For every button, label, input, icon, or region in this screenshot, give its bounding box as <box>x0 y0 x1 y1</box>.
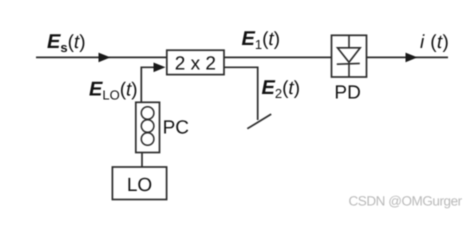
wire: ELO vertical + horizontal into coupler <box>141 67 160 102</box>
PC circle 1 <box>141 107 154 120</box>
arrow on output <box>406 53 418 63</box>
svg-text:i (t): i (t) <box>420 32 449 53</box>
polarization controller PC box <box>136 102 160 152</box>
svg-text:CSDN @OMGurger: CSDN @OMGurger <box>349 194 463 209</box>
photodiode symbol: triangle <box>338 48 361 63</box>
wire: E1 output to PD <box>224 56 332 58</box>
slash termination on E2 <box>247 114 271 129</box>
svg-text:2 x 2: 2 x 2 <box>175 53 216 74</box>
svg-text:PD: PD <box>334 83 360 104</box>
coupler 2x2 box <box>167 50 224 74</box>
photodiode symbol: bottom lead <box>348 64 350 77</box>
photodiode PD box <box>332 35 367 77</box>
photodiode symbol: top lead <box>348 35 350 48</box>
wire: E2 output, right then down <box>224 67 258 120</box>
svg-text:LO: LO <box>127 175 152 196</box>
PC circle 2 <box>141 120 154 133</box>
wire: output line from PD <box>367 56 449 58</box>
arrow on ELO input <box>154 63 166 73</box>
wire: PC to LO <box>141 153 143 168</box>
photodiode symbol: cathode bar <box>337 62 360 65</box>
local oscillator LO box <box>112 167 166 200</box>
PC circle 3 <box>141 133 154 146</box>
arrow on Es input <box>99 53 111 63</box>
wire: Es input line <box>36 56 167 58</box>
svg-text:PC: PC <box>163 118 189 139</box>
